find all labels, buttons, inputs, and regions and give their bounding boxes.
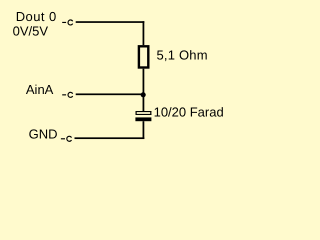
svg-text:5,1 Ohm: 5,1 Ohm xyxy=(157,47,208,62)
svg-text:10/20 Farad: 10/20 Farad xyxy=(154,104,224,119)
svg-text:GND: GND xyxy=(29,127,58,142)
svg-text:Dout 0: Dout 0 xyxy=(16,9,57,24)
svg-text:0V/5V: 0V/5V xyxy=(13,24,49,39)
svg-text:AinA: AinA xyxy=(26,82,54,97)
